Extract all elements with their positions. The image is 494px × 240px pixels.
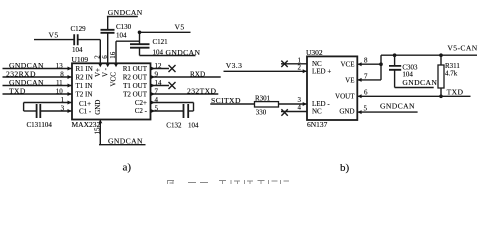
U302 refdes label bbox=[306, 48, 323, 57]
net label V5 left bbox=[49, 31, 59, 40]
C129 value label bbox=[72, 46, 83, 54]
pin arrow pin7 bbox=[151, 92, 155, 96]
C121 refdes label bbox=[153, 38, 169, 46]
wire C132 right stub bbox=[188, 110, 193, 112]
svg-text:a): a) bbox=[123, 161, 132, 173]
svg-text:6N137: 6N137 bbox=[307, 120, 328, 129]
wire pin4 U302 bbox=[281, 111, 307, 113]
svg-text:TXD: TXD bbox=[9, 87, 26, 96]
C303 refdes label bbox=[402, 63, 418, 71]
net label V5 right bbox=[175, 23, 185, 32]
wire C130 to V- pin6 bbox=[107, 33, 109, 64]
C132 refdes label bbox=[166, 122, 182, 130]
svg-text:NC: NC bbox=[312, 107, 322, 115]
pin arrow pin7 U302 bbox=[358, 78, 362, 82]
pin arrow pin6 top bbox=[106, 64, 110, 68]
wire pin3 row left stub bbox=[24, 110, 37, 112]
net label V5-CAN bbox=[447, 43, 477, 52]
svg-text:GNDCAN: GNDCAN bbox=[166, 48, 201, 57]
pin number 6 rotated bbox=[101, 55, 109, 59]
svg-text:104: 104 bbox=[188, 122, 199, 130]
pin number 8 U302 bbox=[364, 57, 368, 65]
resistor R311 bbox=[438, 65, 444, 88]
svg-text:2: 2 bbox=[298, 63, 302, 71]
wire V+ riser pin2 bbox=[99, 40, 101, 64]
pin number 5 U302 bbox=[364, 105, 368, 113]
svg-text:330: 330 bbox=[256, 108, 267, 116]
wire GNDCAN bottom line bbox=[99, 144, 146, 146]
pin arrow pin4 bbox=[151, 101, 155, 105]
pin arrow pin8 bbox=[68, 75, 72, 79]
svg-text:4: 4 bbox=[298, 104, 302, 112]
no-connect X pin4 U302 bbox=[281, 109, 287, 115]
wire GNDCAN line under C303 bbox=[395, 87, 434, 89]
pin number 1 U302 bbox=[298, 56, 302, 64]
U109 refdes label bbox=[72, 55, 89, 64]
R311 value label 4.7k bbox=[445, 70, 458, 78]
pin number 2 U302 bbox=[298, 63, 302, 71]
6N137 value label bbox=[307, 120, 328, 129]
net label 232RXD bbox=[6, 70, 36, 79]
svg-text:GNDCAN: GNDCAN bbox=[108, 136, 143, 145]
caption b) bbox=[340, 162, 350, 174]
svg-text:U302: U302 bbox=[306, 48, 323, 57]
svg-text:GND: GND bbox=[339, 108, 354, 116]
wire pin6 VOUT TXD bbox=[357, 95, 470, 97]
svg-text:C132: C132 bbox=[166, 122, 182, 130]
wire VCC up to V5 node bbox=[139, 32, 141, 44]
wire pin9 row RXD bbox=[151, 76, 221, 78]
capacitor C132 bbox=[184, 104, 189, 118]
svg-text:4.7k: 4.7k bbox=[445, 70, 458, 78]
svg-text:C129: C129 bbox=[71, 25, 87, 33]
pin name V- rotated bbox=[102, 67, 110, 77]
wire R311 bottom stub bbox=[440, 88, 442, 96]
pin number 7 U302 bbox=[364, 72, 368, 80]
svg-text:GNDCAN: GNDCAN bbox=[402, 78, 437, 87]
wire C303 drop bottom bbox=[394, 70, 396, 88]
pin number 16 rotated bbox=[109, 51, 117, 59]
pin number 10 bbox=[56, 88, 64, 96]
wire VCC horizontal bbox=[116, 40, 140, 42]
capacitor C130 bbox=[101, 30, 115, 33]
svg-text:GNDCAN: GNDCAN bbox=[108, 8, 143, 17]
net label GNDCAN bottom bbox=[108, 136, 143, 145]
wire pin3 row bbox=[40, 110, 72, 112]
wire pin10 row bbox=[3, 93, 73, 95]
caption a) bbox=[123, 161, 132, 173]
pin name NC pin1 bbox=[312, 60, 322, 68]
pin name R2 OUT bbox=[123, 74, 148, 82]
svg-text:RXD: RXD bbox=[190, 71, 205, 79]
wire pin11 row bbox=[3, 85, 73, 87]
pin number 12 bbox=[155, 62, 163, 70]
svg-text:R2 OUT: R2 OUT bbox=[123, 74, 148, 82]
C121 value label bbox=[153, 49, 164, 57]
pin number 1 bbox=[61, 96, 65, 104]
pin arrow pin14 bbox=[151, 84, 155, 88]
pin name R1 OUT bbox=[123, 65, 148, 73]
wire V5 to C129 bbox=[34, 39, 74, 41]
net label V3.3 bbox=[226, 61, 243, 70]
pin name LED- bbox=[312, 100, 330, 108]
net label RXD bbox=[190, 71, 205, 79]
capacitor C121 bbox=[130, 44, 150, 48]
svg-text:C2+: C2+ bbox=[135, 99, 147, 107]
pin arrow pin15 bottom bbox=[98, 120, 102, 124]
R301 value label 330 bbox=[256, 108, 267, 116]
pin name C1+ bbox=[79, 100, 91, 108]
pin arrow pin11 bbox=[68, 84, 72, 88]
pin name T2 OUT bbox=[123, 91, 148, 99]
pin number 3 U302 bbox=[298, 96, 302, 104]
net label TXD right bbox=[447, 88, 464, 97]
wire pin5 row bbox=[151, 110, 184, 112]
svg-text:T2 OUT: T2 OUT bbox=[123, 91, 148, 99]
wire pin7 VE bbox=[357, 79, 381, 81]
optocoupler U302 6N137 chip body bbox=[307, 56, 357, 120]
wire riser C132 right bbox=[193, 103, 195, 112]
C303 value label bbox=[402, 71, 413, 79]
pin number 4 bbox=[155, 96, 159, 104]
wire GND pin15 down bbox=[99, 120, 101, 145]
svg-text:232TXD: 232TXD bbox=[187, 87, 217, 96]
svg-text:3: 3 bbox=[298, 96, 302, 104]
net label GNDCAN pin5 bbox=[380, 102, 415, 111]
wire pin4 row bbox=[151, 102, 194, 104]
capacitor C303 bbox=[389, 66, 401, 70]
svg-text:104: 104 bbox=[116, 32, 127, 40]
pin number 6 U302 bbox=[364, 89, 368, 97]
net label TXD bbox=[9, 87, 26, 96]
svg-text:R2 IN: R2 IN bbox=[76, 74, 93, 82]
svg-text:R301: R301 bbox=[255, 94, 271, 102]
wire pin1 row bbox=[24, 102, 72, 104]
pin arrow pin2 U302 bbox=[303, 69, 307, 73]
node junction R311 TXD bbox=[439, 95, 443, 99]
net label SCITXD bbox=[211, 96, 241, 105]
no-connect X pin14 bbox=[169, 82, 176, 89]
svg-text:VCC: VCC bbox=[110, 72, 118, 87]
svg-text:VCE: VCE bbox=[341, 61, 355, 69]
net label GNDCAN right of C121 bbox=[166, 48, 201, 57]
pin number 15 rotated bbox=[94, 127, 102, 135]
svg-text:VE: VE bbox=[345, 76, 354, 84]
resistor R301 bbox=[255, 102, 279, 107]
wire pin7 row 232TXD bbox=[151, 93, 219, 95]
svg-text:R1 IN: R1 IN bbox=[76, 65, 93, 73]
svg-text:T1 IN: T1 IN bbox=[76, 82, 93, 90]
node junction pin8 riser bbox=[379, 62, 383, 66]
figure caption fragment (clipped at bottom edge) bbox=[167, 180, 289, 184]
wire GNDCAN line right of C121 bbox=[140, 55, 196, 57]
pin number 3 bbox=[61, 105, 65, 113]
pin number 4 U302 bbox=[298, 104, 302, 112]
pin name VCC rotated bbox=[110, 72, 118, 87]
svg-text:5: 5 bbox=[364, 105, 368, 113]
pin name VOUT bbox=[335, 92, 355, 100]
wire V5 stub right bbox=[140, 31, 191, 33]
wire pin1 U302 bbox=[281, 63, 307, 65]
node junction R311 top bbox=[439, 53, 443, 57]
svg-text:b): b) bbox=[340, 162, 350, 174]
net label GNDCAN under C303 bbox=[402, 78, 437, 87]
pin name LED+ bbox=[312, 68, 331, 76]
pin name T2 IN bbox=[76, 91, 93, 99]
pin number 13 bbox=[56, 62, 64, 70]
svg-text:T1 OUT: T1 OUT bbox=[123, 82, 148, 90]
pin arrow pin9 bbox=[151, 75, 155, 79]
wire C303 drop top bbox=[394, 55, 396, 66]
C130 value label bbox=[116, 32, 127, 40]
net label 232TXD bbox=[187, 87, 217, 96]
pin name T1 OUT bbox=[123, 82, 148, 90]
svg-text:V5: V5 bbox=[175, 23, 185, 32]
pin number 8 bbox=[60, 71, 64, 79]
svg-text:VOUT: VOUT bbox=[335, 92, 355, 100]
op-amp U109 MAX232 chip body bbox=[72, 63, 151, 119]
capacitor C131 bbox=[37, 104, 41, 118]
pin number 14 bbox=[155, 79, 163, 87]
net label GNDCAN top bbox=[108, 8, 143, 17]
C132 value label bbox=[188, 122, 199, 130]
pin arrow pin1 bbox=[68, 101, 72, 105]
pin arrow pin5 bbox=[151, 109, 155, 113]
pin name GND bbox=[339, 108, 354, 116]
C130 refdes label bbox=[116, 23, 132, 31]
svg-text:C1 -: C1 - bbox=[79, 107, 92, 115]
pin name R1 IN bbox=[76, 65, 93, 73]
C131 value label bbox=[27, 121, 53, 129]
pin arrow pin8 U302 bbox=[358, 62, 362, 66]
wire V5-CAN rail bbox=[381, 54, 477, 56]
wire pin14 row bbox=[151, 85, 170, 87]
R301 refdes label bbox=[255, 94, 271, 102]
wire pin13 row bbox=[3, 68, 73, 70]
wire VCC riser pin16 bbox=[115, 41, 117, 63]
svg-text:8: 8 bbox=[364, 57, 368, 65]
pin name R2 IN bbox=[76, 74, 93, 82]
svg-text:V3.3: V3.3 bbox=[226, 61, 243, 70]
capacitor C129 bbox=[74, 34, 78, 45]
pin arrow pin12 bbox=[151, 67, 155, 71]
pin arrow pin16 top bbox=[114, 64, 118, 68]
svg-text:C2 -: C2 - bbox=[135, 107, 148, 115]
pin arrow pin6 U302 bbox=[358, 94, 362, 98]
wire SCITXD to R301 bbox=[210, 103, 254, 105]
pin number 2 rotated bbox=[94, 55, 102, 59]
MAX232 value label bbox=[72, 120, 101, 129]
pin name C2+ bbox=[135, 99, 147, 107]
node junction V5/C121 bbox=[138, 31, 142, 35]
wire R301 to pin3 bbox=[279, 103, 308, 105]
net label GNDCAN pin13 bbox=[9, 61, 44, 70]
pin number 9 bbox=[155, 71, 159, 79]
svg-text:LED +: LED + bbox=[312, 68, 331, 76]
pin number 11 bbox=[56, 79, 63, 87]
pin arrow pin3 U302 bbox=[303, 102, 307, 106]
wire pin8 VCE bbox=[357, 63, 381, 65]
pin name T1 IN bbox=[76, 82, 93, 90]
pin arrow pin2 top bbox=[98, 64, 102, 68]
pin number 5 bbox=[155, 105, 159, 113]
wire riser V5-CAN bbox=[380, 55, 382, 80]
wire C121 down bbox=[139, 48, 141, 56]
svg-text:C131104: C131104 bbox=[27, 121, 53, 129]
wire pin8 row bbox=[3, 76, 73, 78]
svg-text:V -: V - bbox=[102, 67, 110, 77]
no-connect X pin12 bbox=[169, 65, 176, 72]
R311 refdes label bbox=[445, 62, 460, 70]
svg-text:V5-CAN: V5-CAN bbox=[447, 43, 477, 52]
pin name VE bbox=[345, 76, 354, 84]
wire C129 to V+ riser bbox=[78, 39, 101, 41]
svg-text:C121: C121 bbox=[153, 38, 169, 46]
pin name GND rotated bbox=[94, 100, 102, 115]
node junction C303 bbox=[393, 53, 397, 57]
svg-text:TXD: TXD bbox=[447, 88, 464, 97]
pin name C1- bbox=[79, 107, 92, 115]
svg-text:U109: U109 bbox=[72, 55, 89, 64]
wire GNDCAN down to C130 bbox=[107, 17, 109, 30]
svg-text:GND: GND bbox=[94, 100, 102, 115]
wire pin12 row bbox=[151, 68, 170, 70]
pin number 7 bbox=[155, 88, 159, 96]
svg-text:6: 6 bbox=[364, 89, 368, 97]
svg-text:R1 OUT: R1 OUT bbox=[123, 65, 148, 73]
pin name NC pin4 bbox=[312, 107, 322, 115]
net label GNDCAN pin11 bbox=[9, 78, 44, 87]
wire GNDCAN top underline bbox=[107, 16, 138, 18]
svg-text:104: 104 bbox=[72, 46, 83, 54]
wire pin5 GND bbox=[357, 111, 417, 113]
svg-text:GNDCAN: GNDCAN bbox=[380, 102, 415, 111]
wire V3.3 to pin2 bbox=[224, 70, 308, 72]
pin name V+ rotated bbox=[94, 68, 102, 77]
pin name C2- bbox=[135, 107, 148, 115]
wire R311 top stub bbox=[440, 55, 442, 65]
wire riser C131 left bbox=[23, 103, 25, 112]
svg-text:V5: V5 bbox=[49, 31, 59, 40]
pin arrow pin10 bbox=[68, 92, 72, 96]
no-connect X pin1 U302 bbox=[281, 61, 287, 67]
pin arrow pin3 bbox=[68, 109, 72, 113]
pin arrow pin5 U302 bbox=[358, 110, 362, 114]
pin arrow pin13 bbox=[68, 67, 72, 71]
C129 refdes label bbox=[71, 25, 87, 33]
pin name VCE bbox=[341, 61, 355, 69]
svg-text:C130: C130 bbox=[116, 23, 132, 31]
svg-text:T2 IN: T2 IN bbox=[76, 91, 93, 99]
